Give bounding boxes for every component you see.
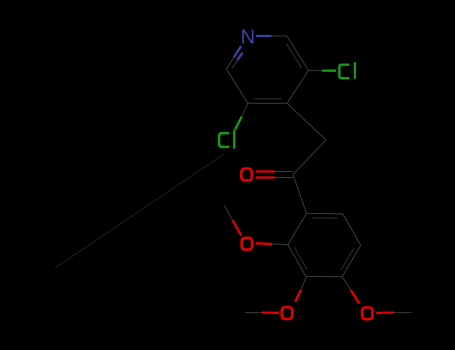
bond C2-C3 — [226, 69, 248, 104]
bond O4'-C4' (to ring, up-left) — [342, 277, 359, 304]
bond CH2-C7 (to carbonyl carbon) — [293, 140, 326, 175]
double bond N1=C2 — [226, 46, 242, 69]
bond O2'-CH3 (methoxy methyl, up-left) — [224, 205, 241, 236]
benzene ring edge C3'-C4' — [306, 275, 342, 277]
bond N1-C6 (pyridine top edge) — [256, 35, 287, 37]
double bond C5=C6 — [286, 36, 308, 71]
double bond C3=C4 — [248, 99, 287, 104]
benzene ring edge C4'-C5' with inner double line — [341, 245, 361, 276]
benzene ring edge C5'-C6' — [343, 214, 361, 246]
atom label O2' (aryl ether oxygen) — [242, 238, 252, 250]
atom label O (ketone oxygen) — [241, 169, 251, 181]
atom label Cl on C3 (lower left) — [219, 130, 235, 149]
bond O3'-CH3 (methoxy methyl, left) — [245, 311, 279, 314]
bond C4-C5 — [287, 71, 309, 104]
atom label O4' (methoxy oxygen lower-right) — [362, 307, 372, 319]
bond C4-CH2 — [287, 103, 326, 140]
bond C3-Cl (to lower chlorine) — [235, 103, 248, 129]
benzene ring edge C1'-C2' — [288, 213, 307, 244]
atom label O3' (methoxy oxygen lower-left) — [282, 307, 292, 319]
atom label Cl on C5 (right) — [339, 62, 356, 78]
svg-text:N: N — [241, 26, 255, 48]
bond O2'-C2' (aryl ether, horizontal) — [256, 243, 288, 244]
bond O4'-CH3 (methoxy methyl, right) — [376, 311, 411, 314]
bond O3'-C3' (to ring, up-right) — [295, 277, 306, 302]
double bond C7=O (ketone) — [256, 172, 293, 178]
benzene ring edge C2'-C3' with inner double line — [288, 245, 307, 277]
bond C7-C1' (carbonyl to benzene) — [293, 175, 307, 214]
benzene ring edge C6'-C1' with inner double line — [307, 213, 343, 218]
stray long diagonal line (lower left) — [55, 154, 224, 268]
bond C5-Cl (to right chlorine) — [309, 70, 337, 72]
